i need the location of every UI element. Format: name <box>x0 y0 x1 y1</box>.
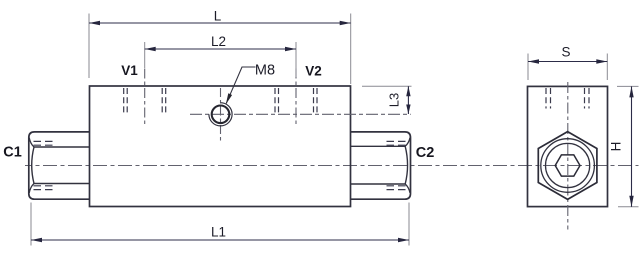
M8 tapped hole circle <box>212 106 230 124</box>
svg-text:H: H <box>609 142 624 152</box>
svg-text:M8: M8 <box>255 63 275 79</box>
dimension S arrow left <box>528 59 539 63</box>
hex plug C1 upper facet chamfer arc <box>29 138 34 147</box>
dimension L1 arrow right <box>398 238 409 242</box>
hex plug C1 upper facet line <box>34 146 90 148</box>
dimension H extension line top <box>617 85 639 87</box>
end view body outline <box>528 86 608 206</box>
svg-text:C2: C2 <box>416 145 435 161</box>
dimension L1 arrow left <box>31 238 42 242</box>
body outline (side view) <box>90 86 351 207</box>
dimension H extension line bottom <box>618 206 639 208</box>
main horizontal centerline axis C1-C2 <box>25 165 639 167</box>
M8 leader arrowhead <box>226 93 232 104</box>
svg-text:V1: V1 <box>121 63 138 78</box>
hex plug C2 hexagon (end view) <box>538 132 597 200</box>
dimension L3 line <box>407 86 409 114</box>
M8 hole vertical centerline <box>220 88 222 142</box>
hex plug C1 thread dashed lines upper <box>34 140 55 142</box>
hex plug C1 lower facet line <box>34 183 90 185</box>
M8 thread arc <box>209 103 232 126</box>
dimension L2 extension line left <box>144 42 146 68</box>
svg-text:V2: V2 <box>305 64 322 79</box>
port V2 axis centerline <box>295 69 297 126</box>
end view vertical centerline <box>567 82 569 230</box>
dimension L2 arrow right <box>285 47 296 51</box>
dimension S arrow right <box>596 59 607 63</box>
dimension L3 arrow top <box>406 86 410 96</box>
dimension H line <box>631 86 633 206</box>
hex plug C2 thread dashed lines upper <box>387 140 408 142</box>
svg-text:L: L <box>214 9 222 24</box>
end view port hidden thread walls <box>546 88 589 109</box>
dimension L1 extension line left <box>30 203 32 246</box>
port V2 hidden thread walls <box>275 88 317 113</box>
dimension L extension line right <box>350 14 352 85</box>
dimension L arrow left <box>89 21 100 25</box>
dimension L2 extension line right <box>295 42 297 77</box>
hex plug C2 middle facet chamfer arc <box>405 146 407 184</box>
M8 hole horizontal centerline (extends to L3) <box>190 113 411 115</box>
dimension L line <box>89 22 351 24</box>
svg-text:C1: C1 <box>3 145 22 161</box>
dimension L2 arrow left <box>145 47 156 51</box>
dimension L2 line <box>145 48 296 50</box>
dimension L3 extension line top <box>362 85 412 87</box>
hex plug C1 lower facet chamfer arc <box>29 184 34 194</box>
dimension S extension line left <box>527 54 529 81</box>
dimension H arrow bottom <box>629 196 633 207</box>
dimension S extension line right <box>606 54 608 81</box>
hex plug C2 lower facet line <box>351 183 406 185</box>
hex plug C2 thread dashed lines lower <box>387 185 408 187</box>
hex plug C2 (right, side view) <box>351 132 411 199</box>
svg-text:L3: L3 <box>387 93 402 107</box>
port V1 hidden thread walls <box>124 88 166 113</box>
hex plug C1 middle facet chamfer arc <box>32 147 34 184</box>
svg-text:S: S <box>561 45 570 60</box>
hex socket (end view) <box>555 155 580 176</box>
dimension H arrow top <box>629 86 633 97</box>
hex plug C2 upper facet chamfer arc <box>405 138 410 147</box>
dimension L1 extension line right <box>408 203 410 246</box>
dimension L extension line left <box>88 14 90 79</box>
svg-text:L2: L2 <box>211 34 226 49</box>
hex plug C2 upper facet line <box>351 145 406 147</box>
dimension L1 line <box>31 239 409 241</box>
svg-text:L1: L1 <box>211 225 226 240</box>
hex plug C1 thread dashed lines lower <box>34 185 55 187</box>
dimension L arrow right <box>340 21 351 25</box>
M8 leader line <box>226 67 255 103</box>
port V1 axis centerline <box>144 69 146 128</box>
dimension L3 arrow bottom <box>406 105 410 115</box>
plug thread circle (end view) <box>546 143 590 187</box>
dimension S line <box>528 61 607 63</box>
hex plug C2 lower facet chamfer arc <box>405 184 410 193</box>
plug chamfer circle (end view) <box>541 139 595 193</box>
hex plug C1 (left, side view) <box>29 132 90 199</box>
